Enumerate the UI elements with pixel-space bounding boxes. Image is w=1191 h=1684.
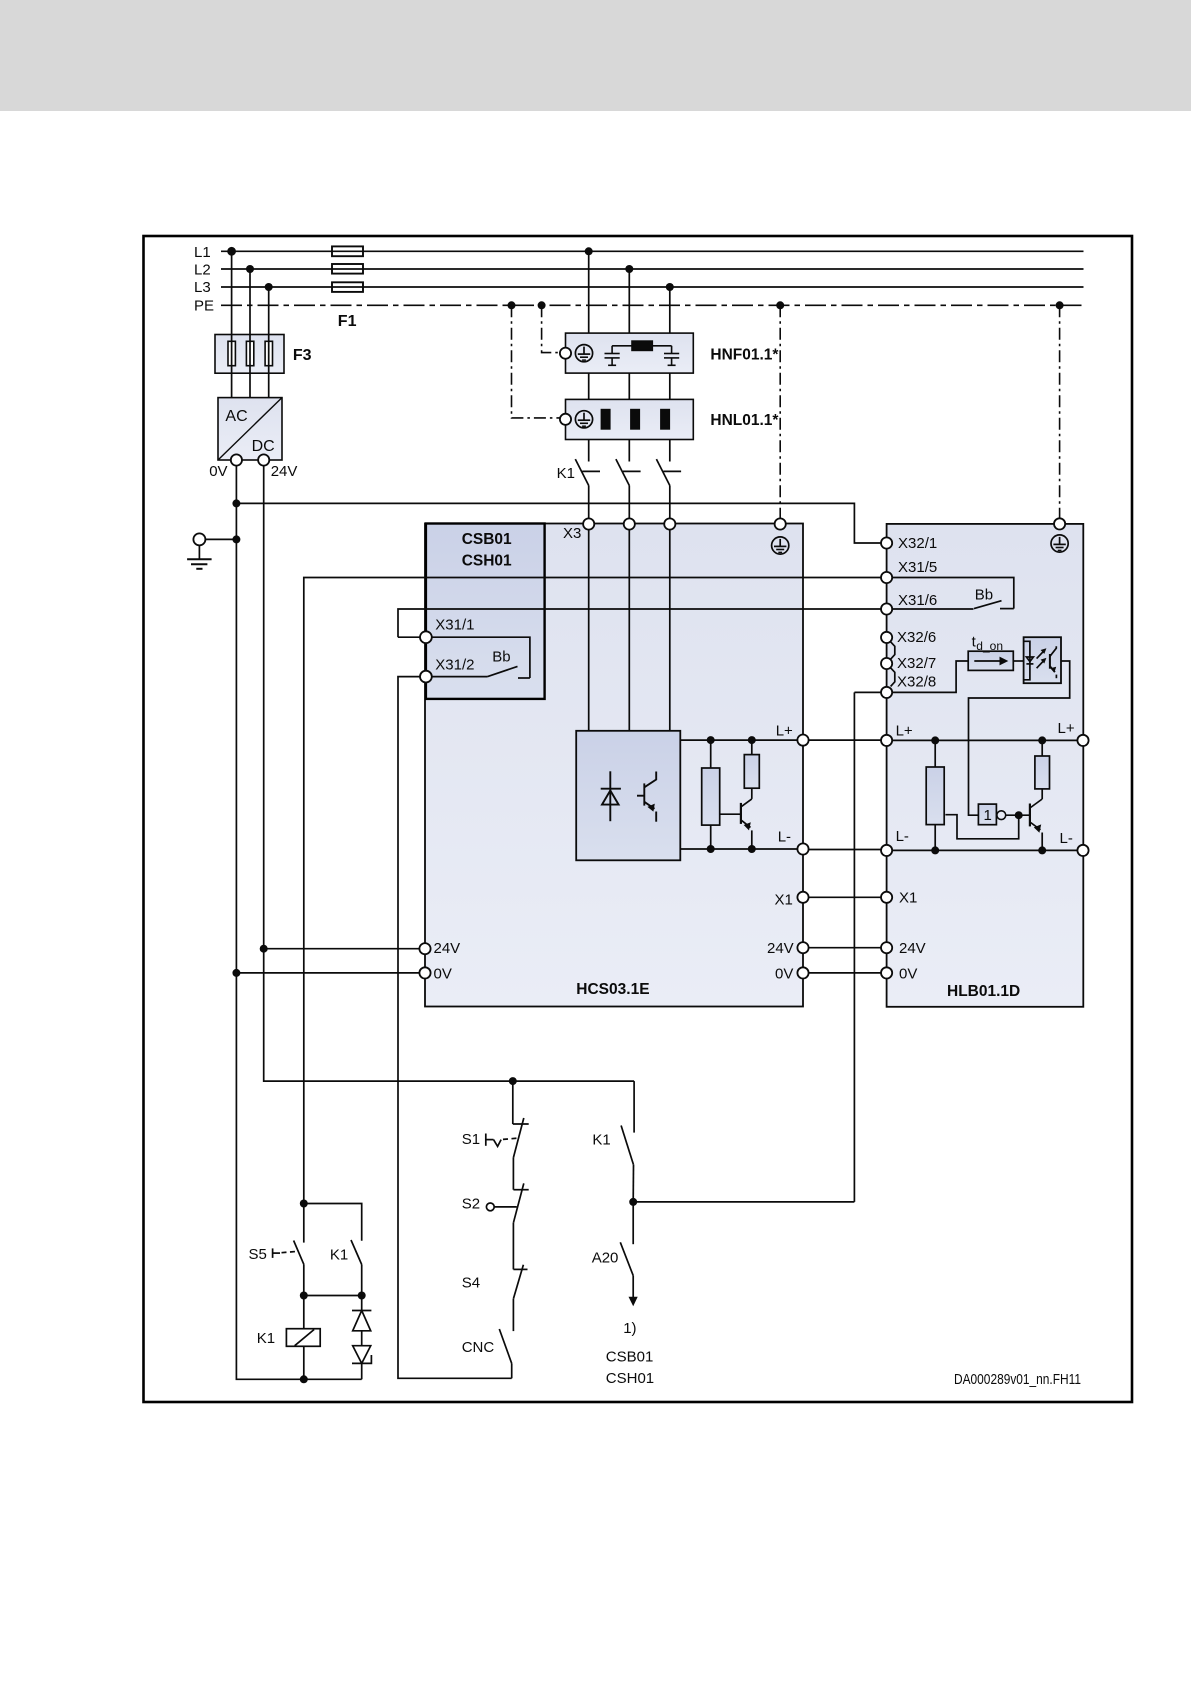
svg-text:Bb: Bb bbox=[975, 586, 993, 603]
svg-text:PE: PE bbox=[194, 298, 214, 315]
svg-text:24V: 24V bbox=[271, 463, 298, 480]
svg-text:24V: 24V bbox=[899, 940, 926, 957]
svg-text:1): 1) bbox=[623, 1320, 636, 1337]
svg-text:X32/7: X32/7 bbox=[897, 655, 936, 672]
svg-text:0V: 0V bbox=[775, 965, 793, 982]
svg-text:HNF01.1*: HNF01.1* bbox=[710, 346, 779, 363]
svg-text:K1: K1 bbox=[592, 1131, 610, 1148]
svg-text:L3: L3 bbox=[194, 279, 211, 296]
svg-text:S1: S1 bbox=[462, 1131, 480, 1148]
svg-text:0V: 0V bbox=[209, 463, 227, 480]
svg-text:K1: K1 bbox=[330, 1246, 348, 1263]
svg-text:X32/8: X32/8 bbox=[897, 673, 936, 690]
svg-text:X32/6: X32/6 bbox=[897, 629, 936, 646]
svg-text:L2: L2 bbox=[194, 262, 211, 279]
svg-text:L-: L- bbox=[1060, 830, 1073, 847]
svg-text:X32/1: X32/1 bbox=[898, 535, 937, 552]
svg-text:X1: X1 bbox=[899, 890, 917, 907]
svg-text:L+: L+ bbox=[776, 723, 793, 740]
svg-text:CNC: CNC bbox=[462, 1339, 495, 1356]
svg-text:F3: F3 bbox=[293, 347, 312, 364]
svg-text:CSB01: CSB01 bbox=[462, 531, 512, 548]
svg-text:HNL01.1*: HNL01.1* bbox=[710, 412, 779, 429]
svg-text:K1: K1 bbox=[257, 1330, 275, 1347]
svg-text:HLB01.1D: HLB01.1D bbox=[947, 983, 1020, 1000]
svg-text:CSH01: CSH01 bbox=[462, 553, 512, 570]
svg-text:X31/1: X31/1 bbox=[435, 617, 474, 634]
svg-text:K1: K1 bbox=[557, 465, 575, 482]
svg-text:1: 1 bbox=[984, 807, 992, 824]
svg-text:S2: S2 bbox=[462, 1196, 480, 1213]
svg-text:HCS03.1E: HCS03.1E bbox=[576, 981, 649, 998]
svg-text:0V: 0V bbox=[434, 965, 452, 982]
svg-text:0V: 0V bbox=[899, 965, 917, 982]
svg-text:L+: L+ bbox=[1058, 720, 1075, 737]
svg-text:X1: X1 bbox=[775, 892, 793, 909]
svg-text:L-: L- bbox=[778, 829, 791, 846]
svg-text:F1: F1 bbox=[338, 313, 357, 330]
svg-text:X3: X3 bbox=[563, 525, 581, 542]
svg-text:L+: L+ bbox=[896, 722, 913, 739]
svg-text:L-: L- bbox=[896, 828, 909, 845]
svg-text:CSH01: CSH01 bbox=[606, 1370, 654, 1387]
svg-text:L1: L1 bbox=[194, 244, 211, 261]
svg-text:Bb: Bb bbox=[492, 648, 510, 665]
svg-text:X31/2: X31/2 bbox=[435, 657, 474, 674]
svg-text:AC: AC bbox=[225, 408, 247, 425]
svg-text:d_on: d_on bbox=[976, 639, 1003, 653]
svg-text:X31/5: X31/5 bbox=[898, 559, 937, 576]
svg-text:24V: 24V bbox=[767, 940, 794, 957]
svg-text:X31/6: X31/6 bbox=[898, 592, 937, 609]
svg-text:CSB01: CSB01 bbox=[606, 1348, 654, 1365]
svg-text:DC: DC bbox=[252, 438, 275, 455]
svg-text:A20: A20 bbox=[592, 1250, 619, 1267]
svg-text:DA000289v01_nn.FH11: DA000289v01_nn.FH11 bbox=[954, 1371, 1081, 1388]
svg-text:S4: S4 bbox=[462, 1275, 480, 1292]
svg-text:S5: S5 bbox=[249, 1246, 267, 1263]
svg-text:24V: 24V bbox=[434, 940, 461, 957]
